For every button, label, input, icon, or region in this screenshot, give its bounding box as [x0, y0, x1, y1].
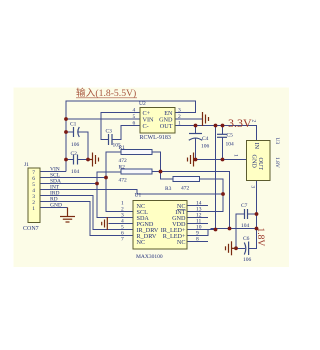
- capacitor C3: [109, 134, 113, 145]
- wire: top loop VIN to EN: [66, 101, 196, 172]
- junction: VIN net at U2 pin5: [64, 117, 68, 121]
- wire: C6 left lead to ground: [232, 247, 246, 249]
- capacitor C1: [74, 127, 80, 137]
- svg-text:4: 4: [133, 108, 136, 114]
- capacitor C2: [74, 155, 78, 165]
- svg-text:2: 2: [178, 114, 181, 120]
- junction: 1.8V rail at pullup drop: [228, 227, 232, 231]
- ground: U2 pin2 (points right): [203, 112, 209, 126]
- svg-text:8: 8: [196, 237, 199, 243]
- regulator U3: [247, 141, 271, 181]
- svg-text:C4: C4: [202, 136, 209, 142]
- U1 pin numbers: [121, 201, 202, 243]
- svg-text:J1: J1: [24, 162, 29, 168]
- junction: 3.3V rail at LED drop: [214, 124, 218, 128]
- wire: U1 pin14: [187, 205, 208, 207]
- svg-text:C-: C-: [143, 123, 149, 130]
- svg-text:C7: C7: [241, 203, 248, 209]
- ground: U1 PGND (points left): [102, 217, 108, 230]
- svg-text:R1: R1: [119, 145, 126, 151]
- junction: 3.3V rail at C4: [194, 124, 198, 128]
- wire: J1 GND: [40, 207, 68, 209]
- wire: C5 leads: [222, 126, 224, 135]
- wire: C4 leads: [195, 126, 197, 134]
- wire: 3.3V rail OUT of U2 to U3 IN: [175, 126, 257, 141]
- capacitor C4 polarized: [189, 134, 202, 141]
- svg-text:1.8V: 1.8V: [255, 228, 265, 247]
- wire: C1 left lead: [66, 131, 74, 133]
- svg-text:106: 106: [243, 257, 252, 263]
- junction: VIN net at C1: [64, 130, 68, 134]
- capacitor C5: [217, 134, 227, 137]
- wire: U2 pin4 C+ to C3 left: [101, 113, 140, 140]
- svg-text:5: 5: [133, 114, 136, 120]
- sheet background: [14, 88, 290, 268]
- junction: 3.3V rail at C5: [221, 124, 225, 128]
- wire: GND rail under C4/C5 to U3 pin1: [194, 159, 247, 161]
- svg-text:OUT: OUT: [160, 123, 173, 130]
- wire: C1 right to ground node: [78, 132, 88, 160]
- svg-text:IN: IN: [253, 143, 260, 150]
- svg-text:1: 1: [32, 206, 35, 212]
- junction: GND rail at C4: [194, 158, 198, 162]
- svg-text:6: 6: [133, 121, 136, 127]
- ground: C2 node (points right): [88, 153, 99, 167]
- svg-text:U2: U2: [139, 101, 146, 107]
- INT overline: [177, 209, 186, 211]
- svg-text:472: 472: [119, 158, 128, 164]
- wire: U3 OUT drop to C6: [249, 181, 257, 249]
- svg-text:104: 104: [241, 223, 250, 229]
- wire: U1 pin9: [187, 230, 208, 236]
- junction: GND rail at C5: [221, 158, 225, 162]
- capacitor C7: [245, 209, 248, 219]
- svg-text:106: 106: [201, 144, 210, 150]
- wire: U2 pin2 GND stub: [175, 118, 203, 120]
- wire: INT drop to U1 pin13: [187, 194, 223, 212]
- junction: ground node at C6: [234, 246, 238, 250]
- junction: VIN net at C2: [64, 158, 68, 162]
- wire: J1 RD to U1 pin6: [40, 202, 133, 236]
- J1 net labels: [50, 167, 62, 209]
- svg-text:输入(1.8-5.5V): 输入(1.8-5.5V): [76, 86, 136, 99]
- svg-text:C1: C1: [70, 122, 77, 128]
- wire: J1 SDA: [40, 183, 97, 185]
- wire: SDA drop to U1 pin3 / R1 left: [106, 152, 133, 212]
- wire: U1 pin4 PGND: [109, 223, 134, 225]
- junction: SDA at R2 drop: [95, 182, 99, 186]
- svg-text:472: 472: [181, 186, 190, 192]
- ground: C6 node (points left): [226, 241, 237, 255]
- connector J1: [28, 168, 40, 223]
- svg-text:R3: R3: [165, 186, 172, 192]
- wire: U1 pin12: [187, 217, 208, 219]
- svg-text:104: 104: [226, 142, 235, 148]
- junction: 3.3V drop at IR_LED+: [214, 228, 218, 232]
- wire: J1 SCL: [40, 177, 106, 179]
- svg-text:1: 1: [233, 154, 239, 157]
- wire: C2 left lead: [66, 159, 74, 161]
- wire: R1 right R2 right R3 left common: [152, 152, 173, 179]
- U3 pin numbers: [233, 120, 257, 189]
- junction: SCL at R1 drop: [104, 176, 108, 180]
- wire: 1.8V rail: [211, 228, 257, 230]
- svg-text:C5: C5: [227, 133, 234, 139]
- chip U1 MAX30100: [133, 201, 187, 250]
- svg-text:104: 104: [71, 169, 80, 175]
- svg-text:472: 472: [119, 178, 128, 184]
- svg-text:U1: U1: [135, 193, 142, 199]
- junction: VDD pullup node at R1/R2: [159, 170, 163, 174]
- junction: 1.8V rail at U3 OUT: [255, 227, 259, 231]
- svg-text:CON7: CON7: [23, 226, 39, 232]
- resistor R3: [173, 177, 200, 182]
- ground: J1 GND (points down): [60, 208, 75, 223]
- junction: INT net at R3: [221, 192, 225, 196]
- resistor R1: [121, 150, 152, 155]
- svg-text:106: 106: [71, 142, 80, 148]
- ground: GND rail left (points left): [188, 153, 194, 167]
- wire: U1 pin11 VDD: [187, 223, 208, 225]
- junction: C1/C2 ground node: [86, 158, 90, 162]
- capacitor C6 polarized: [244, 242, 248, 256]
- svg-text:3: 3: [178, 108, 181, 114]
- svg-text:R2: R2: [119, 165, 126, 171]
- wire: J1 VIN: [40, 171, 66, 173]
- svg-text:GND: GND: [251, 155, 258, 169]
- svg-text:RCWL-9183: RCWL-9183: [140, 135, 171, 141]
- wire: SCL drop to U1 pin2 / R2 left: [97, 172, 133, 218]
- svg-text:MAX30100: MAX30100: [136, 254, 163, 260]
- wire: C7 right lead: [248, 213, 257, 215]
- svg-text:3: 3: [250, 186, 256, 189]
- svg-text:NC: NC: [177, 239, 186, 246]
- svg-text:7: 7: [121, 237, 124, 243]
- wire: 3.3V drop to LED pins: [215, 126, 217, 230]
- wire: U2 pin6 C- to C3 right: [112, 126, 140, 140]
- op chip U2 RCWL-9183: [140, 108, 175, 134]
- svg-text:C2: C2: [71, 151, 78, 157]
- svg-text:OUT: OUT: [257, 158, 264, 171]
- junction: 1.8V at C7: [255, 212, 259, 216]
- svg-text:C3: C3: [106, 129, 113, 135]
- wire: C7 left lead drop: [236, 214, 245, 249]
- svg-text:1: 1: [178, 121, 181, 127]
- svg-text:NC: NC: [137, 239, 146, 246]
- resistor R2: [121, 169, 152, 174]
- svg-text:C6: C6: [243, 236, 250, 242]
- wire: U1 pin10: [187, 229, 216, 231]
- wire: R3 right to INT net: [200, 179, 224, 194]
- wire: U1 pin8: [187, 241, 208, 243]
- wire: R2 right to VDD drop: [152, 172, 230, 229]
- svg-text:3.3V: 3.3V: [228, 116, 252, 130]
- wire: C2 right lead: [78, 159, 89, 161]
- wire: J1 IRD to U1 pin5: [40, 196, 133, 230]
- svg-text:GND: GND: [50, 203, 62, 209]
- wire: J1 INT line: [40, 190, 223, 195]
- svg-text:1.8V: 1.8V: [274, 157, 280, 168]
- wire: U2 pin5 VIN: [66, 118, 140, 120]
- svg-text:U3: U3: [274, 138, 280, 145]
- U2 pin numbers: [133, 108, 182, 127]
